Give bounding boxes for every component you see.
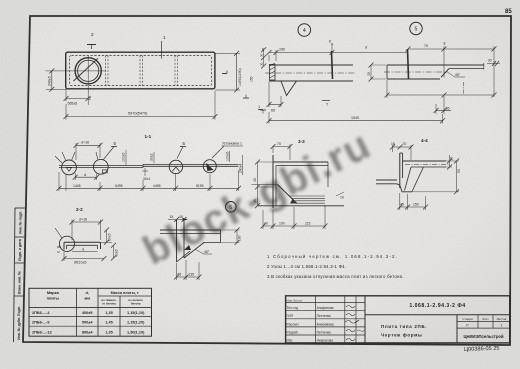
section 4-4 bottom leg	[376, 180, 412, 192]
watermark block-gbi.ru	[135, 121, 378, 274]
title block grid	[286, 296, 510, 343]
section 1-1 title	[145, 134, 152, 139]
title block stage cells	[462, 317, 506, 328]
table grid	[29, 288, 152, 336]
section 3-3 title	[298, 139, 305, 144]
section 4-4 title	[421, 138, 428, 143]
detail 6 right dim 100	[221, 228, 242, 246]
section 4-4 weld diagonals	[405, 167, 424, 192]
table data rows	[32, 311, 145, 334]
plan section mark 2 (top)	[87, 32, 96, 49]
section 4-4 bottom dims 45 150	[397, 193, 428, 210]
section 3-3 bottom dims 40 100 115	[261, 205, 328, 229]
detail 5 top dims 70	[406, 42, 497, 98]
left strip rotated captions	[17, 211, 23, 340]
detail 4 left dims	[249, 47, 266, 82]
section 2-2 right lower dim 40±5	[111, 243, 119, 261]
detail 4 bottom-left dim 65	[258, 82, 284, 113]
section 1-1 leader 5 over C3	[177, 141, 186, 159]
detail 4 top dims 25 150 d	[262, 40, 408, 62]
plan far-right tick marks	[243, 95, 266, 114]
detail 5 dim 65	[434, 96, 452, 114]
section 3-3 bend diagonal	[252, 166, 298, 206]
detail 6 bottom dims 65 135	[174, 260, 202, 280]
handwritten inventory number	[464, 346, 500, 353]
page number 85	[505, 9, 512, 15]
section 2-2 weld circle	[59, 236, 74, 251]
note line 2	[267, 264, 346, 269]
plan dim 565±5 below hole	[64, 89, 92, 106]
title block subject	[381, 324, 427, 337]
title block organization	[463, 334, 503, 339]
section 4-4 right dims 10 90	[412, 155, 461, 194]
detail 4 cross plate	[332, 51, 333, 79]
detail 5 lower dim line	[385, 80, 497, 98]
plan hole diagonal cut line	[74, 58, 99, 81]
plan leader label 1	[162, 35, 166, 59]
detail 6 top dim with arrow	[168, 215, 188, 222]
plan inner dashed edge	[70, 56, 212, 86]
plan outline	[66, 52, 215, 89]
plan hole inner circle	[78, 60, 99, 81]
section 1-1 dim d below	[73, 173, 100, 180]
section 1-1 right dims	[225, 151, 242, 175]
section 4-4 top bar	[403, 161, 449, 167]
section 3-3 top dim 70	[271, 142, 293, 160]
section 1-1 circle C3	[169, 160, 182, 173]
plan section mark inside right end	[222, 71, 227, 74]
detail 5 bar	[384, 65, 448, 79]
title block signatures	[345, 306, 364, 341]
section 1-1 bar left part	[59, 166, 143, 168]
note line 1	[267, 254, 398, 259]
detail 4/5 long bottom dim 1545	[267, 112, 446, 124]
detail 6 balloon	[226, 202, 237, 213]
detail 6 diagonal bevel	[177, 243, 205, 263]
left margin strip	[14, 208, 25, 342]
section 2-2 right dim 60±5	[101, 228, 113, 245]
plan left dim 240±5	[46, 68, 66, 92]
detail 4 balloon	[298, 24, 311, 37]
table header texts	[47, 290, 144, 306]
detail 6 45 deg label	[195, 249, 212, 254]
section 1-1 step dim 30±1	[142, 168, 151, 181]
detail 4 bar	[265, 65, 356, 81]
section 1-1 circle C2	[93, 152, 108, 174]
detail 4 T3 mark	[322, 101, 330, 107]
section 3-3 label 10	[336, 192, 344, 200]
detail 6 horizontal bar	[160, 230, 221, 243]
detail 5 bend and tail	[441, 63, 484, 77]
plan rib dashed lines	[106, 56, 178, 86]
note line 3	[267, 274, 404, 279]
section 2-2 bottom dim	[62, 252, 107, 265]
section 2-2 left tick	[57, 247, 61, 252]
title block name rows	[287, 299, 334, 343]
section 2-2 top dim d+16	[70, 217, 104, 240]
plan hole outer circle	[75, 58, 101, 84]
detail 5 left dim 30	[367, 63, 386, 82]
detail 5 balloon	[410, 22, 422, 34]
detail 5 cross plate	[408, 49, 409, 79]
plan hole centerlines	[46, 56, 107, 105]
section 2-2 profile	[64, 242, 101, 249]
detail 6 bent bar verticals	[177, 220, 185, 263]
section 3-3 left dims	[253, 160, 272, 209]
section 3-3 top bar	[273, 162, 328, 187]
section 1-1 leader 5 over C2	[103, 141, 117, 160]
section 1-1 circle C4 anchor	[203, 160, 216, 173]
section 3-3 vertical plate	[272, 147, 274, 208]
section 4-4 top dims 15 70	[390, 142, 414, 160]
section 1-1 label ustanovka	[212, 142, 243, 159]
section 1-1 bar right part with step	[143, 164, 239, 167]
section 3-3 bar end hatch	[290, 196, 326, 203]
title block doc number	[409, 303, 465, 309]
section 1-1 top dim d+16	[74, 140, 103, 160]
plan right dim 1490(1190)	[215, 51, 242, 93]
section 1-1 C1 leader	[55, 156, 62, 163]
detail 4 gusset V	[281, 81, 297, 96]
section 3-3 bottom bar line	[258, 205, 344, 207]
section 4-4 vertical plate	[400, 153, 403, 188]
section 1-1 mid dim 100±5	[122, 150, 126, 165]
detail 4 left anchor plate	[270, 63, 276, 80]
section 1-1 stub under C2	[102, 170, 107, 173]
detail 5 right end dim 30	[464, 59, 501, 95]
section 1-1 circle C1 with anchor	[62, 152, 77, 191]
section 2-2 dim d inside	[72, 247, 98, 251]
plan bottom overall dim 5970(5470)	[64, 91, 218, 120]
section 2-2 leader	[55, 228, 62, 238]
section 1-1 mid dim 30±2	[150, 152, 154, 163]
section 1-1 bottom dim line	[57, 170, 242, 191]
section 2-2 title	[76, 207, 83, 212]
